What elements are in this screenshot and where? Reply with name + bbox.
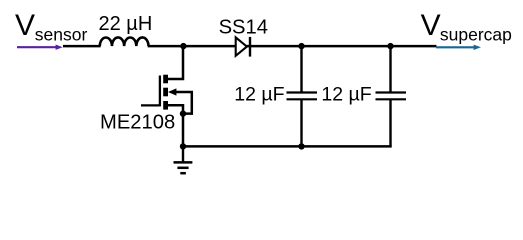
svg-text:V: V <box>15 9 35 42</box>
svg-text:supercap: supercap <box>440 24 512 44</box>
svg-text:22 µH: 22 µH <box>99 13 153 35</box>
svg-text:12 µF: 12 µF <box>321 84 371 106</box>
svg-text:ME2108: ME2108 <box>100 112 175 134</box>
svg-text:12 µF: 12 µF <box>234 84 284 106</box>
svg-text:V: V <box>421 9 441 42</box>
svg-text:SS14: SS14 <box>219 17 268 39</box>
svg-text:sensor: sensor <box>35 25 88 45</box>
